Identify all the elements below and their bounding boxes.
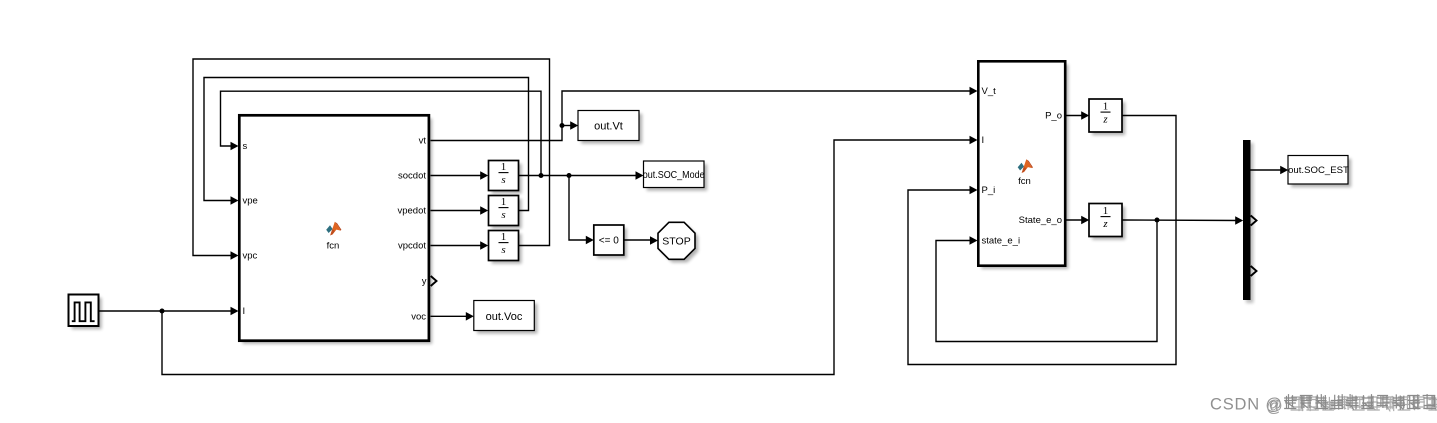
svg-text:P_i: P_i [982,185,996,196]
svg-text:out.SOC_EST: out.SOC_EST [1288,165,1349,176]
svg-text:s: s [501,209,505,221]
svg-text:<= 0: <= 0 [599,236,619,247]
svg-text:out.Voc: out.Voc [486,311,523,323]
svg-text:socdot: socdot [398,171,426,182]
svg-text:fcn: fcn [1018,176,1031,187]
svg-text:vpedot: vpedot [397,206,426,217]
svg-text:vpc: vpc [243,251,258,262]
svg-text:I: I [982,135,985,146]
svg-text:STOP: STOP [662,235,690,247]
svg-text:voc: voc [411,311,426,322]
svg-text:1: 1 [501,161,507,173]
svg-text:1: 1 [1103,100,1109,112]
svg-text:vpe: vpe [243,196,258,207]
svg-text:1: 1 [1103,205,1109,217]
svg-text:s: s [243,141,248,152]
svg-text:s: s [501,244,505,256]
svg-text:State_e_o: State_e_o [1019,215,1062,226]
svg-text:V_t: V_t [982,86,997,97]
svg-text:out.Vt: out.Vt [594,121,623,133]
svg-text:z: z [1102,114,1108,126]
svg-text:fcn: fcn [327,241,340,252]
svg-text:z: z [1102,218,1108,230]
svg-text:y: y [422,276,427,287]
svg-text:vt: vt [419,136,427,147]
svg-text:1: 1 [501,231,507,243]
svg-text:I: I [243,306,246,317]
svg-text:s: s [501,174,505,186]
svg-text:P_o: P_o [1045,111,1062,122]
svg-text:@: @ [1266,398,1283,416]
svg-text:1: 1 [501,196,507,208]
svg-text:vpcdot: vpcdot [398,241,426,252]
svg-text:out.SOC_Mode: out.SOC_Mode [643,170,705,181]
svg-text:state_e_i: state_e_i [982,236,1021,247]
